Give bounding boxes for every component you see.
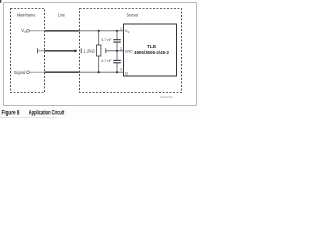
svg-text:1.2kΩ: 1.2kΩ <box>83 48 95 53</box>
capacitor C2 plate bottom <box>113 62 121 64</box>
svg-text:3: 3 <box>120 68 122 72</box>
svg-text:TLE: TLE <box>147 44 157 49</box>
resistor R 1.2k body <box>97 45 101 56</box>
op-amp U1 TLE sensor IC body <box>124 24 177 76</box>
svg-text:4905/3505-2/45-2: 4905/3505-2/45-2 <box>134 50 170 55</box>
svg-text:2: 2 <box>120 47 122 51</box>
junction dot resistor bottom <box>98 71 100 73</box>
capacitor C1 plate bottom <box>113 41 121 43</box>
capacitor C1 plate top <box>113 39 121 41</box>
page background <box>0 0 200 119</box>
wire Signal thin sensor <box>80 71 124 73</box>
svg-text:AEA01920: AEA01920 <box>160 95 173 99</box>
wire GND sensor <box>106 50 123 52</box>
svg-text:4.7 nF: 4.7 nF <box>101 58 112 63</box>
wire GND thin mainframe <box>38 50 45 52</box>
capacitor C2 plate top <box>113 59 121 61</box>
junction dot cap1 top <box>116 30 118 32</box>
svg-text:1: 1 <box>120 27 122 31</box>
svg-text:Line: Line <box>58 12 65 17</box>
svg-text:S: S <box>127 30 129 34</box>
capacitor C2 lead down <box>116 63 118 72</box>
resistor lead down <box>98 56 100 72</box>
figure border frame <box>4 3 197 106</box>
node Signal terminal <box>27 71 30 74</box>
wire Vs thick line-region <box>45 30 80 32</box>
GND tick sensor <box>105 48 107 53</box>
svg-text:Signal: Signal <box>14 70 26 75</box>
mainframe dashed box <box>11 9 45 93</box>
caption underline <box>0 116 57 118</box>
junction dot GND line end <box>74 50 77 53</box>
wire Signal thin mainframe <box>29 71 44 73</box>
svg-text:S: S <box>24 30 26 34</box>
wire Signal thick line-region <box>45 71 80 73</box>
junction dot caps mid <box>116 50 118 52</box>
junction dot cap2 bottom <box>116 71 118 73</box>
resistor lead up <box>98 31 100 45</box>
wire Vs thin mainframe <box>29 30 44 32</box>
resistor tick lead <box>80 48 82 53</box>
svg-text:Application Circuit: Application Circuit <box>29 110 65 117</box>
capacitor C1 4.7nF lead up <box>116 31 118 39</box>
sensor dashed box <box>80 9 182 93</box>
junction dot resistor top <box>98 30 100 32</box>
node Vs terminal <box>27 29 30 32</box>
svg-text:Figure 8: Figure 8 <box>2 110 20 117</box>
svg-text:Sensor: Sensor <box>127 12 139 17</box>
svg-text:Q: Q <box>125 70 128 75</box>
corner artifact top-left <box>0 0 1 3</box>
svg-text:Mainframe: Mainframe <box>17 12 36 17</box>
svg-text:GND: GND <box>125 49 133 54</box>
wire GND thick line-region <box>45 50 76 52</box>
svg-text:4.7 nF: 4.7 nF <box>101 37 112 42</box>
capacitor C2 4.7nF lead up <box>116 51 118 60</box>
wire Vs thin sensor <box>80 30 124 32</box>
capacitor C1 lead down <box>116 43 118 51</box>
GND tick mainframe <box>37 48 39 53</box>
